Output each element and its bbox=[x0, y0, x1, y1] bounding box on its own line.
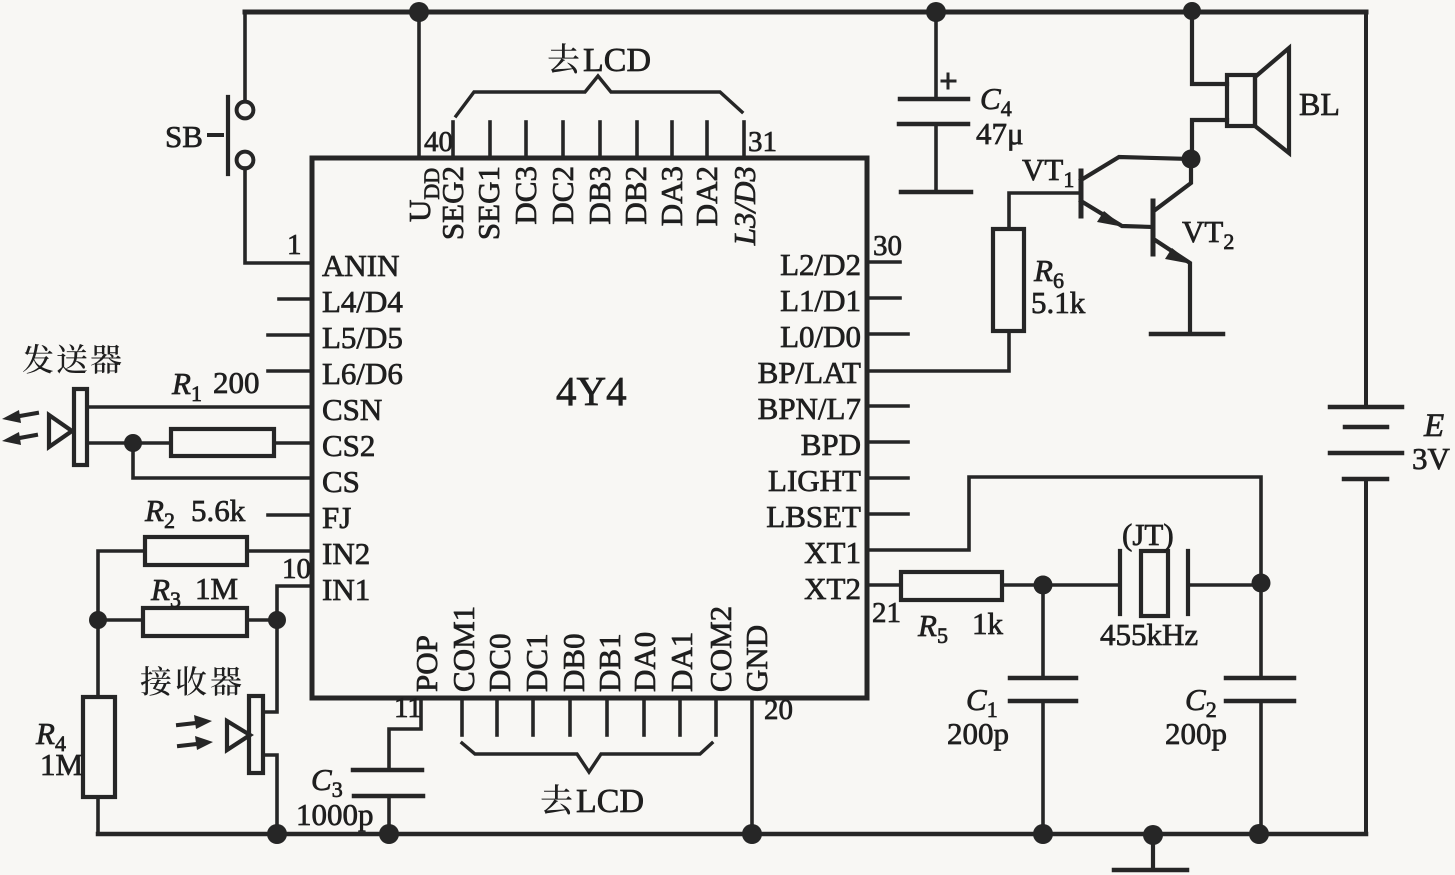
svg-text:200p: 200p bbox=[1165, 716, 1227, 751]
pin stub L5/D5 bbox=[268, 333, 312, 337]
pin stub L4/D4 bbox=[279, 297, 312, 301]
wire R2 left to vertical bbox=[98, 551, 145, 697]
svg-text:IN1: IN1 bbox=[322, 572, 370, 607]
brace to LCD top bbox=[456, 76, 742, 116]
wire UDD pin 40 to rail bbox=[417, 12, 421, 158]
svg-text:1M: 1M bbox=[40, 747, 83, 782]
wire R1 to CS2 pin bbox=[274, 441, 312, 445]
pin tick DA1 bbox=[678, 698, 682, 735]
wire XT1 to crystal right node bbox=[867, 477, 1261, 583]
svg-text:200p: 200p bbox=[947, 716, 1009, 751]
wire C2 upper lead bbox=[1259, 583, 1263, 677]
svg-text:L5/D5: L5/D5 bbox=[322, 320, 403, 355]
svg-text:CSN: CSN bbox=[322, 392, 382, 427]
svg-text:11: 11 bbox=[394, 692, 422, 724]
pin stub FJ bbox=[268, 513, 312, 517]
svg-text:L6/D6: L6/D6 bbox=[322, 356, 403, 391]
svg-text:IN2: IN2 bbox=[322, 536, 370, 571]
svg-text:CS: CS bbox=[322, 464, 360, 499]
svg-text:DA0: DA0 bbox=[627, 632, 662, 692]
pin tick DB1 bbox=[605, 698, 609, 735]
phototransistor receiver bbox=[178, 696, 263, 773]
node C2 rail junction bbox=[1249, 824, 1269, 844]
capacitor C1 bbox=[1010, 678, 1076, 701]
capacitor C4 bbox=[899, 12, 971, 192]
resistor R5 bbox=[901, 572, 1002, 600]
wire top supply rail bbox=[245, 10, 1366, 15]
pin tick DB2 bbox=[635, 122, 639, 158]
svg-text:GND: GND bbox=[739, 625, 774, 692]
node ground rail junction bbox=[1143, 825, 1163, 845]
svg-text:10: 10 bbox=[282, 553, 311, 585]
wire POP pin 11 to C3 bbox=[389, 698, 421, 769]
pushbutton SB bbox=[209, 97, 253, 174]
svg-text:200: 200 bbox=[213, 365, 260, 400]
brace to LCD bottom bbox=[462, 743, 712, 772]
wire receiver collector bbox=[263, 620, 277, 712]
wire LED to CS2 node bbox=[87, 441, 171, 445]
svg-text:DB2: DB2 bbox=[618, 166, 653, 225]
pin tick L3/D3 bbox=[742, 122, 746, 158]
wire C1 lower lead bbox=[1041, 701, 1045, 834]
wire right rail lower bbox=[1364, 479, 1368, 834]
svg-text:5.1k: 5.1k bbox=[1031, 285, 1086, 320]
pin tick SEG2 bbox=[451, 122, 455, 158]
svg-text:(JT): (JT) bbox=[1122, 517, 1174, 552]
svg-text:DC2: DC2 bbox=[545, 166, 580, 225]
svg-text:1: 1 bbox=[287, 229, 302, 261]
svg-text:31: 31 bbox=[748, 126, 777, 158]
node receiver emitter rail bbox=[267, 824, 287, 844]
pin tick DA3 bbox=[670, 122, 674, 158]
svg-text:DB0: DB0 bbox=[556, 633, 591, 692]
node speaker top rail junction bbox=[1183, 2, 1201, 20]
wire XT2 to R5 bbox=[867, 583, 901, 587]
svg-text:POP: POP bbox=[409, 635, 444, 692]
svg-text:E: E bbox=[1423, 408, 1444, 444]
pin tick DC2 bbox=[561, 122, 565, 158]
resistor R6 bbox=[993, 229, 1024, 331]
pin tick SEG1 bbox=[488, 122, 492, 158]
node C3 rail junction bbox=[379, 824, 399, 844]
svg-text:4Y4: 4Y4 bbox=[556, 368, 627, 414]
pin tick COM2 bbox=[714, 698, 718, 735]
svg-text:ANIN: ANIN bbox=[322, 248, 400, 283]
svg-text:SEG1: SEG1 bbox=[471, 166, 506, 240]
svg-text:BPD: BPD bbox=[801, 427, 861, 462]
pin stub L0/D0 bbox=[867, 332, 908, 336]
ground symbol bottom bbox=[1114, 835, 1187, 870]
pin stub L1/D1 bbox=[867, 296, 900, 300]
node C2 junction bbox=[1252, 574, 1271, 593]
pin tick DC3 bbox=[524, 122, 528, 158]
speaker BL bbox=[1192, 11, 1289, 159]
svg-text:SEG2: SEG2 bbox=[435, 166, 470, 240]
wire R6 to BP/LAT pin bbox=[867, 331, 1009, 371]
svg-text:LCD: LCD bbox=[583, 42, 651, 79]
svg-text:FJ: FJ bbox=[322, 500, 351, 535]
resistor R2 bbox=[145, 537, 247, 565]
wire R2 to IN2 pin bbox=[247, 549, 312, 553]
label 去LCD top bbox=[548, 42, 651, 79]
capacitor C2 bbox=[1226, 678, 1294, 701]
pin tick DB0 bbox=[568, 698, 572, 735]
transistor VT1 bbox=[1081, 157, 1191, 227]
pin tick DA2 bbox=[705, 122, 709, 158]
svg-text:COM1: COM1 bbox=[446, 606, 481, 692]
svg-text:40: 40 bbox=[424, 126, 453, 158]
svg-text:5.6k: 5.6k bbox=[191, 493, 246, 528]
node IN1 junction bbox=[268, 611, 286, 629]
pin stub L2/D2 bbox=[867, 260, 900, 264]
wire SB upper lead bbox=[243, 12, 247, 101]
node pin40 top rail junction bbox=[409, 2, 429, 22]
svg-text:455kHz: 455kHz bbox=[1100, 617, 1198, 652]
wire C2 lower lead bbox=[1259, 701, 1263, 834]
wire R4 to rail bbox=[96, 797, 100, 834]
svg-text:21: 21 bbox=[872, 597, 901, 629]
svg-text:DC1: DC1 bbox=[519, 633, 554, 692]
wire node to IN1 pin bbox=[277, 586, 312, 620]
wire C3 to rail bbox=[387, 796, 391, 834]
capacitor C3 bbox=[353, 770, 423, 796]
svg-text:XT2: XT2 bbox=[804, 571, 861, 606]
svg-text:COM2: COM2 bbox=[703, 606, 738, 692]
wire GND pin 20 to rail bbox=[750, 698, 754, 834]
wire R5 to crystal bbox=[1002, 583, 1120, 587]
label transmitter bbox=[23, 344, 121, 374]
label receiver bbox=[141, 666, 242, 696]
svg-text:1000p: 1000p bbox=[296, 797, 374, 832]
wire right rail upper bbox=[1364, 12, 1368, 407]
pin stub BPD bbox=[867, 440, 908, 444]
svg-text:L2/D2: L2/D2 bbox=[780, 247, 861, 282]
wire VT1 base to R6 bbox=[1009, 193, 1081, 229]
svg-text:L3/D3: L3/D3 bbox=[727, 166, 762, 246]
svg-text:DC3: DC3 bbox=[508, 166, 543, 225]
svg-text:DA3: DA3 bbox=[654, 166, 689, 226]
svg-text:LBSET: LBSET bbox=[766, 499, 861, 534]
svg-text:L1/D1: L1/D1 bbox=[780, 283, 861, 318]
svg-text:LCD: LCD bbox=[576, 783, 644, 820]
resistor R3 bbox=[143, 608, 247, 636]
wire R3 left bbox=[98, 618, 143, 622]
label 去LCD bottom bbox=[541, 783, 644, 820]
node C1 rail junction bbox=[1033, 824, 1053, 844]
svg-text:DA1: DA1 bbox=[664, 632, 699, 692]
svg-text:3V: 3V bbox=[1412, 441, 1451, 476]
wire SB to pin 1 ANIN bbox=[245, 168, 312, 263]
pin tick COM1 bbox=[460, 698, 464, 735]
svg-text:DB1: DB1 bbox=[592, 633, 627, 692]
svg-text:BPN/L7: BPN/L7 bbox=[758, 391, 861, 426]
pin stub BPN/L7 bbox=[867, 404, 908, 408]
svg-text:DC0: DC0 bbox=[482, 633, 517, 692]
pin stub L6/D6 bbox=[268, 369, 312, 373]
wire R3 right bbox=[247, 618, 277, 622]
pin stub LBSET bbox=[867, 512, 908, 516]
IC 4Y4 body bbox=[312, 158, 867, 698]
svg-text:L0/D0: L0/D0 bbox=[780, 319, 861, 354]
svg-text:DA2: DA2 bbox=[689, 166, 724, 226]
resistor R4 bbox=[83, 697, 115, 797]
svg-text:1M: 1M bbox=[195, 571, 238, 606]
pin tick DA0 bbox=[642, 698, 646, 735]
pin tick DC0 bbox=[495, 698, 499, 735]
svg-text:47μ: 47μ bbox=[976, 116, 1024, 151]
node CS2/CS junction bbox=[124, 434, 142, 452]
wire bottom ground rail bbox=[98, 832, 1366, 837]
pin stub LIGHT bbox=[867, 476, 908, 480]
wire LED to CSN bbox=[87, 405, 312, 409]
pin tick DC1 bbox=[531, 698, 535, 735]
wire node to CS pin bbox=[133, 443, 312, 478]
node C1 junction bbox=[1034, 576, 1053, 595]
ground bar under VT2 bbox=[1151, 332, 1223, 337]
transmitter IR LED bbox=[2, 389, 87, 465]
battery E bbox=[1330, 407, 1402, 479]
node GND rail junction bbox=[742, 824, 762, 844]
node VT collector junction bbox=[1182, 150, 1201, 169]
svg-text:1k: 1k bbox=[972, 606, 1004, 641]
node R3 left junction bbox=[89, 611, 107, 629]
wire receiver emitter bbox=[263, 755, 277, 834]
resistor R1 bbox=[171, 429, 274, 456]
svg-text:SB: SB bbox=[165, 119, 203, 154]
svg-text:20: 20 bbox=[764, 694, 793, 726]
transistor VT2 bbox=[1153, 159, 1192, 333]
node C4 top rail junction bbox=[926, 2, 946, 22]
wire crystal to C2 node bbox=[1188, 583, 1261, 587]
wire C1 upper lead bbox=[1041, 585, 1045, 677]
svg-text:BP/LAT: BP/LAT bbox=[758, 355, 861, 390]
svg-text:DB3: DB3 bbox=[582, 166, 617, 225]
crystal JT bbox=[1120, 551, 1188, 616]
svg-text:CS2: CS2 bbox=[322, 428, 375, 463]
svg-text:LIGHT: LIGHT bbox=[768, 463, 861, 498]
svg-text:XT1: XT1 bbox=[804, 535, 861, 570]
pin tick DB3 bbox=[598, 122, 602, 158]
svg-text:L4/D4: L4/D4 bbox=[322, 284, 403, 319]
svg-text:BL: BL bbox=[1299, 86, 1340, 122]
svg-text:30: 30 bbox=[873, 230, 902, 262]
